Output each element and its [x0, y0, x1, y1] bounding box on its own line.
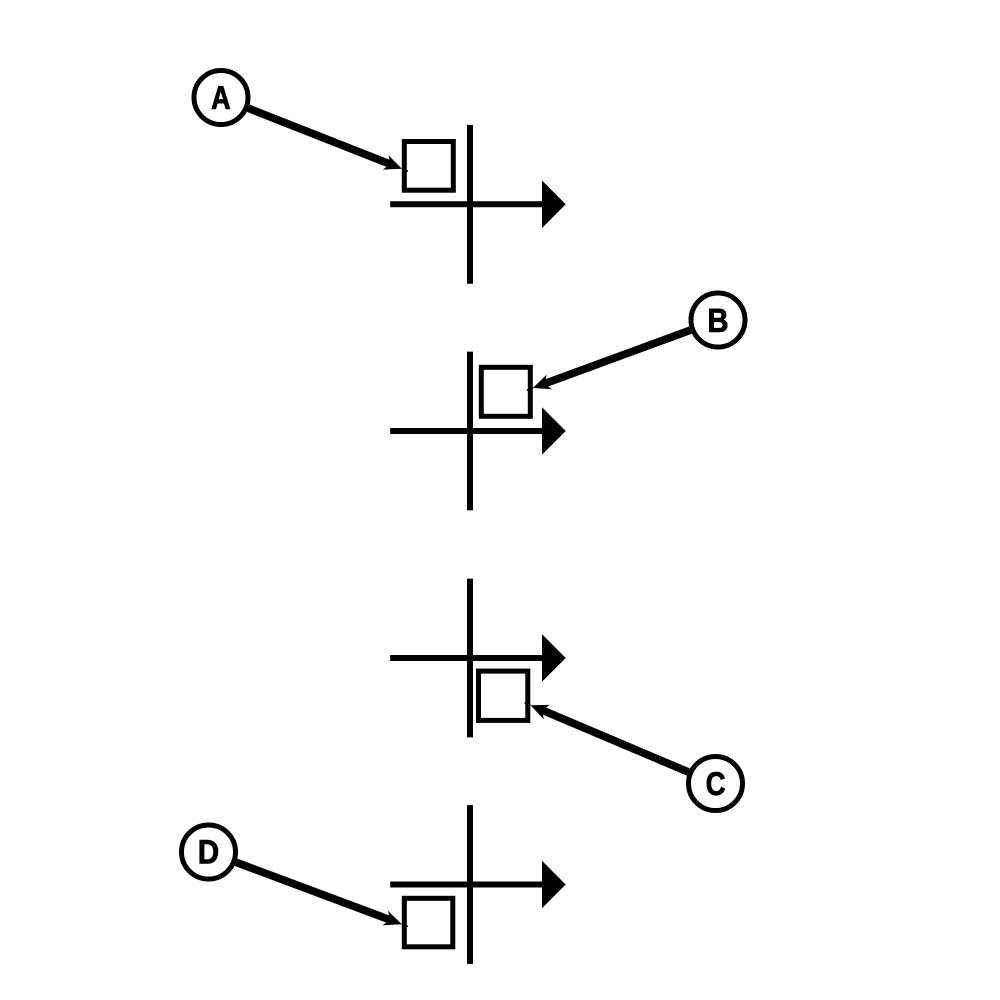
square D — [404, 898, 453, 947]
leader line D — [236, 862, 391, 920]
arrowhead B — [542, 407, 566, 455]
callout circle B — [691, 293, 745, 347]
vertical line D — [467, 805, 473, 964]
arrowhead D — [542, 861, 566, 909]
callout circle A — [194, 71, 248, 125]
arrowhead A — [542, 181, 566, 229]
horizontal arrow shaft A — [390, 201, 547, 207]
leader line C — [541, 710, 689, 773]
leader arrowhead D — [383, 911, 408, 927]
horizontal arrow shaft B — [390, 428, 547, 434]
label C — [707, 772, 725, 795]
square A — [404, 142, 453, 191]
leader line A — [248, 108, 391, 165]
label D — [200, 840, 218, 863]
leader arrowhead C — [525, 703, 550, 720]
leader line B — [543, 330, 690, 384]
leader arrowhead B — [527, 375, 552, 391]
label B — [709, 309, 727, 332]
vertical line C — [467, 579, 473, 738]
callout circle C — [689, 757, 743, 811]
vertical line A — [467, 125, 473, 284]
square C — [479, 671, 528, 720]
horizontal arrow shaft C — [390, 655, 547, 661]
callout circle D — [182, 825, 236, 879]
square B — [481, 367, 530, 416]
vertical line B — [467, 352, 473, 511]
arrowhead C — [542, 634, 566, 682]
leader arrowhead A — [383, 155, 408, 171]
label A — [212, 86, 230, 108]
horizontal arrow shaft D — [390, 882, 547, 888]
